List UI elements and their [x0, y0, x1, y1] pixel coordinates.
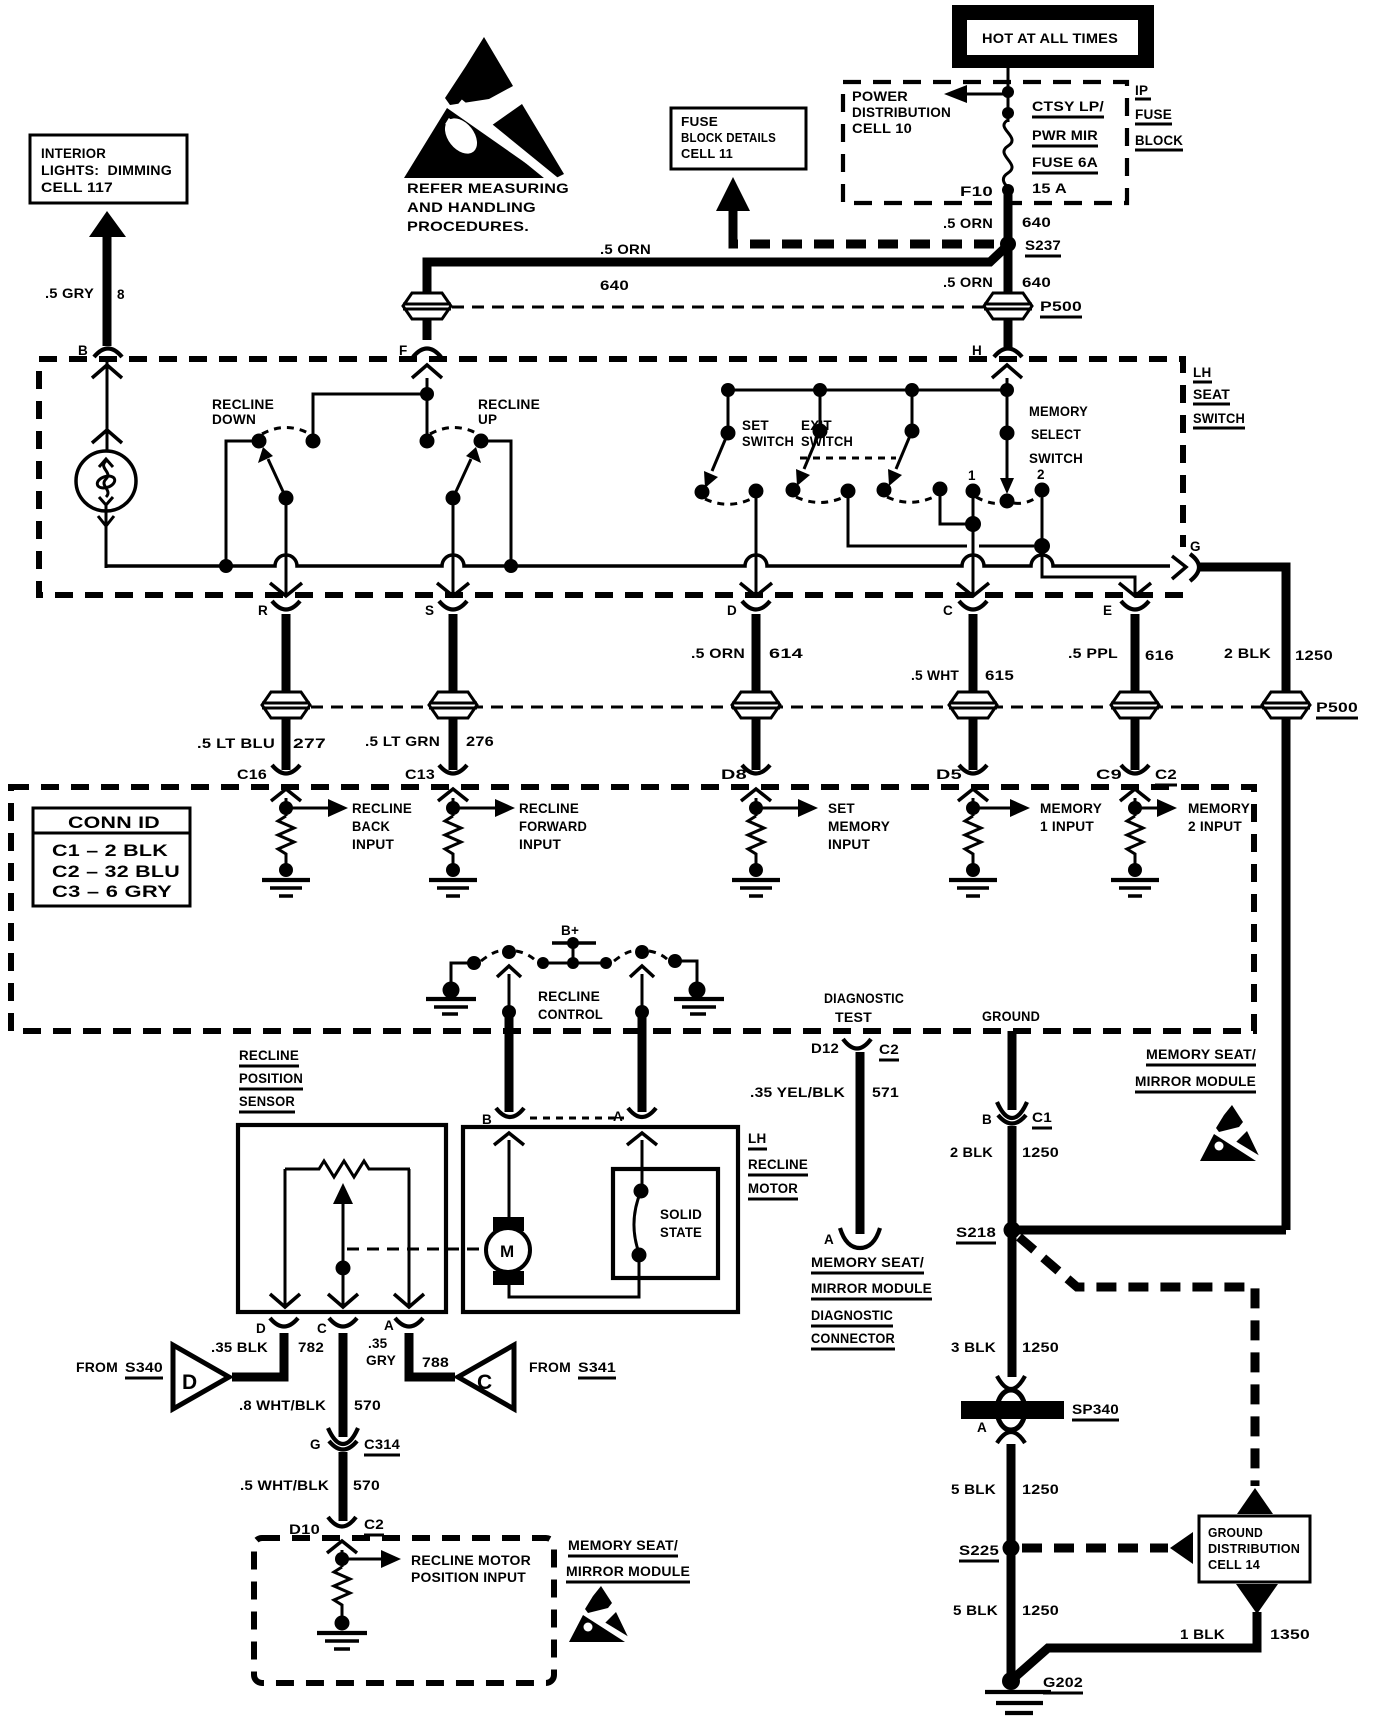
svg-text:DIAGNOSTIC: DIAGNOSTIC — [811, 1308, 893, 1323]
connector B / C1 — [982, 1102, 1052, 1128]
connector C16 — [237, 765, 300, 782]
wire .35 BLK 782 — [211, 1333, 324, 1377]
svg-text:.5 GRY: .5 GRY — [45, 286, 94, 301]
ground distribution cell 14 box — [1199, 1488, 1310, 1614]
LH seat switch dashed box — [39, 359, 1183, 595]
wire F10 to S237 .5 ORN 640 — [943, 194, 1051, 244]
svg-text:A: A — [384, 1318, 394, 1333]
svg-text:S340: S340 — [125, 1360, 163, 1375]
sensor right leg to A — [394, 1169, 424, 1308]
svg-text:GRY: GRY — [366, 1353, 396, 1368]
svg-text:CONTROL: CONTROL — [538, 1007, 603, 1022]
inline connector E at P500 — [1111, 692, 1159, 718]
svg-text:C13: C13 — [405, 767, 435, 782]
splice S237 — [1000, 236, 1061, 256]
svg-text:RECLINE: RECLINE — [519, 801, 579, 816]
wire 5 BLK 1250 upper — [951, 1444, 1059, 1548]
svg-text:INPUT: INPUT — [352, 837, 395, 852]
svg-text:C2 – 32 BLU: C2 – 32 BLU — [52, 862, 180, 881]
wire G to 2 BLK — [1200, 567, 1286, 694]
svg-text:SOLID: SOLID — [660, 1207, 702, 1222]
connector G / C314 — [310, 1428, 400, 1455]
splice S225 — [959, 1540, 1020, 1562]
wire S237 to P500 .5 ORN 640 — [943, 244, 1051, 295]
ground G202 — [985, 1672, 1083, 1713]
ESD symbol module — [1200, 1105, 1261, 1161]
memory 1 input — [949, 789, 1102, 896]
svg-text:FUSE: FUSE — [1135, 107, 1172, 122]
svg-text:POWER: POWER — [852, 89, 908, 104]
svg-text:POSITION: POSITION — [239, 1071, 303, 1086]
svg-text:SWITCH: SWITCH — [742, 434, 794, 449]
svg-text:D12: D12 — [811, 1041, 839, 1056]
wire .5 ORN 614 to D8 — [752, 718, 761, 770]
svg-text:E: E — [1103, 603, 1112, 618]
svg-text:BLOCK: BLOCK — [1135, 133, 1183, 148]
dashed link B to A connectors — [530, 1117, 624, 1120]
svg-text:MEMORY: MEMORY — [828, 819, 890, 834]
exit switch mechanical link — [800, 457, 896, 460]
svg-text:616: 616 — [1145, 648, 1174, 663]
svg-text:DOWN: DOWN — [212, 412, 256, 427]
svg-text:G: G — [310, 1437, 321, 1452]
svg-text:MEMORY SEAT/: MEMORY SEAT/ — [1146, 1047, 1256, 1062]
svg-text:MIRROR MODULE: MIRROR MODULE — [1135, 1074, 1256, 1089]
bus wire with hops — [217, 555, 1170, 566]
svg-text:UP: UP — [478, 412, 497, 427]
svg-text:.5 LT BLU: .5 LT BLU — [197, 736, 275, 751]
svg-text:G202: G202 — [1043, 1675, 1083, 1690]
wire memory 1 to connector C — [957, 491, 989, 596]
recline up switch — [420, 397, 541, 596]
motor M — [486, 1133, 639, 1297]
wire from HOT box + arrow to power distribution — [944, 66, 1014, 122]
svg-text:B: B — [982, 1112, 992, 1127]
svg-text:C: C — [477, 1371, 492, 1394]
junction node right bus — [504, 559, 518, 573]
LH seat switch label — [1193, 365, 1245, 428]
svg-text:S: S — [425, 603, 434, 618]
svg-text:BLOCK DETAILS: BLOCK DETAILS — [681, 131, 776, 145]
svg-text:S225: S225 — [959, 1543, 999, 1558]
svg-text:SET: SET — [742, 418, 769, 433]
solid state box — [613, 1133, 718, 1278]
svg-text:C: C — [317, 1321, 327, 1336]
svg-text:G: G — [1190, 539, 1201, 554]
svg-text:.5 ORN: .5 ORN — [691, 646, 745, 661]
svg-text:CELL 14: CELL 14 — [1208, 1558, 1260, 1572]
recline back input — [262, 789, 412, 896]
recline motor position input — [317, 1541, 531, 1649]
fuse labels — [1032, 99, 1104, 196]
connector D — [727, 601, 770, 618]
recline forward input — [429, 789, 587, 896]
memory select switch — [966, 390, 1089, 509]
svg-text:INPUT: INPUT — [519, 837, 562, 852]
svg-text:1: 1 — [968, 468, 976, 483]
memory seat mirror module label — [1135, 1047, 1256, 1092]
svg-text:640: 640 — [1022, 275, 1051, 290]
inline connector C at P500 — [949, 692, 997, 718]
svg-text:D: D — [182, 1371, 197, 1394]
svg-text:MEMORY SEAT/: MEMORY SEAT/ — [811, 1255, 924, 1270]
svg-text:D10: D10 — [289, 1522, 320, 1537]
svg-text:B: B — [78, 343, 88, 358]
memory seat mirror module 2 label — [566, 1538, 690, 1582]
svg-text:2 INPUT: 2 INPUT — [1188, 819, 1243, 834]
svg-text:640: 640 — [1022, 215, 1051, 230]
dashed wire S218 to ground distribution — [1019, 1237, 1255, 1486]
svg-text:DISTRIBUTION: DISTRIBUTION — [1208, 1542, 1300, 1556]
svg-text:CONN ID: CONN ID — [68, 813, 160, 832]
svg-text:FORWARD: FORWARD — [519, 819, 587, 834]
svg-text:MEMORY: MEMORY — [1188, 801, 1250, 816]
svg-text:P500: P500 — [1040, 299, 1082, 314]
svg-text:AND HANDLING: AND HANDLING — [407, 200, 536, 215]
svg-text:2: 2 — [1037, 467, 1045, 482]
svg-text:570: 570 — [354, 1398, 381, 1413]
svg-text:DISTRIBUTION: DISTRIBUTION — [852, 105, 951, 120]
connector C9 / C2 — [1096, 765, 1177, 785]
svg-text:INPUT: INPUT — [828, 837, 871, 852]
wire S218 to 2 BLK riser — [1012, 1226, 1286, 1235]
svg-text:1350: 1350 — [1270, 1627, 1310, 1642]
IP fuse block label — [1135, 83, 1183, 150]
inline connector at F — [403, 293, 451, 319]
wire E to P500 — [1131, 614, 1140, 694]
svg-text:GROUND: GROUND — [982, 1009, 1040, 1024]
svg-text:REFER MEASURING: REFER MEASURING — [407, 181, 569, 196]
svg-text:.5 WHT: .5 WHT — [911, 668, 960, 683]
wire .5 WHT 615 to D5 — [969, 718, 978, 770]
svg-text:RECLINE: RECLINE — [478, 397, 540, 412]
sensor left leg to D — [270, 1169, 300, 1308]
wire .5 PPL 616 to C9 — [1131, 718, 1140, 770]
svg-text:SWITCH: SWITCH — [801, 434, 853, 449]
interior lights cell box — [30, 135, 187, 203]
connector C — [943, 601, 987, 618]
svg-text:B: B — [482, 1112, 492, 1127]
P500 connector plane dashed — [311, 706, 1262, 709]
svg-text:S341: S341 — [578, 1360, 616, 1375]
wire .35 YEL/BLK 571 — [750, 1052, 899, 1234]
svg-text:A: A — [824, 1232, 834, 1247]
svg-text:.35: .35 — [368, 1336, 388, 1351]
connector A motor — [613, 1108, 656, 1124]
fuse CTSY LP/PWR MIR 6A — [960, 120, 1014, 199]
wire .5 LT GRN 276 to C13 — [449, 718, 458, 770]
svg-text:615: 615 — [985, 668, 1014, 683]
svg-text:.5 ORN: .5 ORN — [943, 275, 993, 290]
junction node left bus — [219, 559, 233, 573]
wire 2 BLK 1250 riser — [1282, 718, 1291, 1230]
off page triangle D from S340 — [76, 1345, 229, 1409]
wire C to P500 — [969, 614, 978, 694]
svg-text:RECLINE: RECLINE — [239, 1048, 299, 1063]
connector plane dashed line F to P500 — [452, 306, 984, 309]
svg-text:SP340: SP340 — [1072, 1402, 1119, 1417]
svg-text:.5 LT GRN: .5 LT GRN — [365, 734, 440, 749]
inline connector P500 — [984, 293, 1082, 319]
svg-text:POSITION INPUT: POSITION INPUT — [411, 1570, 527, 1585]
svg-text:H: H — [972, 343, 982, 358]
wire F node to recline switches — [313, 365, 442, 441]
svg-text:M: M — [500, 1242, 514, 1261]
wire 2 BLK 1250 to S218 — [950, 1126, 1059, 1230]
connector D5 — [936, 765, 987, 782]
svg-text:788: 788 — [422, 1355, 449, 1370]
svg-text:MOTOR: MOTOR — [748, 1181, 798, 1196]
svg-text:.5 WHT/BLK: .5 WHT/BLK — [240, 1478, 329, 1493]
svg-text:SELECT: SELECT — [1031, 427, 1081, 442]
svg-text:2 BLK: 2 BLK — [950, 1145, 993, 1160]
recline control left wiper — [481, 945, 536, 1019]
svg-text:614: 614 — [769, 646, 803, 661]
connector G with arrow — [1172, 539, 1201, 588]
svg-text:SET: SET — [828, 801, 855, 816]
LH recline motor box — [463, 1127, 738, 1312]
ESD warning symbol — [404, 37, 569, 234]
svg-text:277: 277 — [293, 736, 326, 751]
svg-text:.35 YEL/BLK: .35 YEL/BLK — [750, 1085, 845, 1100]
svg-text:MEMORY SEAT/: MEMORY SEAT/ — [568, 1538, 678, 1553]
diagnostic test label — [824, 991, 904, 1025]
sensor resistor — [285, 1161, 410, 1177]
ESD symbol module 2 — [569, 1586, 630, 1642]
svg-text:MIRROR MODULE: MIRROR MODULE — [566, 1564, 690, 1579]
svg-text:8: 8 — [117, 287, 125, 302]
svg-text:S218: S218 — [956, 1225, 996, 1240]
svg-text:CELL 10: CELL 10 — [852, 121, 912, 136]
connector D10 / C2 — [289, 1517, 384, 1537]
svg-text:1 BLK: 1 BLK — [1180, 1627, 1225, 1642]
svg-text:SWITCH: SWITCH — [1193, 411, 1245, 426]
splice S218 — [956, 1222, 1021, 1244]
svg-text:RECLINE MOTOR: RECLINE MOTOR — [411, 1553, 531, 1568]
svg-text:1250: 1250 — [1022, 1145, 1059, 1160]
switch feed rail — [721, 383, 1014, 397]
HOT AT ALL TIMES box — [952, 5, 1154, 68]
inline connector BLK at P500 — [1262, 692, 1358, 718]
connector B motor — [482, 1108, 524, 1127]
set switch — [695, 390, 795, 596]
svg-text:SENSOR: SENSOR — [239, 1094, 295, 1109]
diagnostic connector A — [824, 1228, 880, 1248]
svg-text:RECLINE: RECLINE — [538, 989, 600, 1004]
svg-text:570: 570 — [353, 1478, 380, 1493]
svg-text:F: F — [399, 343, 407, 358]
recline control right ground contact — [668, 954, 724, 1014]
wire memory 2 to connector E — [1034, 490, 1151, 596]
svg-text:.5 PPL: .5 PPL — [1068, 646, 1118, 661]
svg-text:GROUND: GROUND — [1208, 1526, 1263, 1540]
svg-text:CELL 117: CELL 117 — [41, 180, 113, 195]
lamp to bus wire — [106, 564, 217, 568]
svg-text:MEMORY: MEMORY — [1029, 404, 1088, 419]
memory seat mirror module 2 dashed box — [254, 1538, 554, 1683]
svg-text:2 BLK: 2 BLK — [1224, 646, 1271, 661]
recline position sensor label — [239, 1048, 303, 1112]
connector H — [972, 343, 1022, 358]
svg-text:C314: C314 — [364, 1437, 400, 1452]
recline control B+ feed — [537, 923, 612, 969]
svg-text:IP: IP — [1135, 83, 1148, 98]
svg-text:C1 – 2 BLK: C1 – 2 BLK — [52, 841, 169, 860]
svg-text:LIGHTS: DIMMING: LIGHTS: DIMMING — [41, 163, 172, 178]
connector F — [399, 343, 441, 358]
svg-text:CONNECTOR: CONNECTOR — [811, 1331, 895, 1346]
svg-text:571: 571 — [872, 1085, 899, 1100]
svg-text:FUSE 6A: FUSE 6A — [1032, 155, 1098, 170]
wire R to P500 — [282, 614, 291, 694]
svg-text:PWR MIR: PWR MIR — [1032, 128, 1098, 143]
diagnostic connector label — [811, 1255, 932, 1349]
svg-text:3 BLK: 3 BLK — [951, 1340, 996, 1355]
svg-text:B+: B+ — [561, 923, 579, 938]
svg-text:1250: 1250 — [1022, 1482, 1059, 1497]
svg-text:FROM: FROM — [529, 1360, 571, 1375]
svg-text:5 BLK: 5 BLK — [953, 1603, 998, 1618]
svg-text:.8 WHT/BLK: .8 WHT/BLK — [239, 1398, 326, 1413]
exit switch — [786, 390, 1035, 546]
wire .5 GRY 8 arrow to interior lights — [45, 211, 126, 346]
svg-text:PROCEDURES.: PROCEDURES. — [407, 219, 529, 234]
svg-text:C9: C9 — [1096, 767, 1122, 782]
wire recline control to motor B — [505, 1012, 514, 1112]
CONN ID table — [33, 808, 190, 906]
recline control right wiper — [614, 945, 668, 1019]
fuse block details cell box — [671, 108, 806, 169]
svg-text:P500: P500 — [1316, 700, 1358, 715]
memory 2 input — [1111, 789, 1250, 896]
svg-text:1250: 1250 — [1022, 1340, 1059, 1355]
inline connector D at P500 — [732, 692, 780, 718]
off page triangle C from S341 — [458, 1345, 616, 1409]
connector C13 — [405, 765, 467, 782]
svg-text:FROM: FROM — [76, 1360, 118, 1375]
wire labels above P500 — [691, 646, 1333, 683]
svg-text:D: D — [727, 603, 737, 618]
wire .5 ORN 640 from F to S237 — [427, 242, 1008, 340]
svg-text:RECLINE: RECLINE — [352, 801, 412, 816]
connector B (LH seat switch pin B) — [78, 343, 122, 358]
svg-text:D5: D5 — [936, 767, 962, 782]
svg-text:5 BLK: 5 BLK — [951, 1482, 996, 1497]
connector D12 / C2 — [811, 1039, 899, 1060]
svg-text:F10: F10 — [960, 184, 993, 199]
svg-text:CTSY LP/: CTSY LP/ — [1032, 99, 1104, 114]
svg-text:MEMORY: MEMORY — [1040, 801, 1102, 816]
svg-text:640: 640 — [600, 278, 629, 293]
wire 1 BLK 1350 — [1014, 1612, 1310, 1678]
connector A sensor — [384, 1318, 423, 1333]
svg-text:TEST: TEST — [835, 1010, 873, 1025]
wire 3 BLK 1250 — [951, 1230, 1059, 1377]
memory recall switch — [877, 390, 982, 532]
svg-text:C16: C16 — [237, 767, 267, 782]
connector D sensor — [256, 1318, 298, 1336]
svg-text:.5 ORN: .5 ORN — [600, 242, 651, 257]
dashed wire S225 to ground distribution — [1022, 1532, 1193, 1564]
wire .35 GRY 788 — [366, 1333, 455, 1377]
svg-text:MIRROR MODULE: MIRROR MODULE — [811, 1281, 932, 1296]
wire .8 WHT/BLK 570 — [239, 1333, 381, 1437]
sensor wiper — [328, 1183, 358, 1308]
svg-text:.35 BLK: .35 BLK — [211, 1340, 268, 1355]
svg-text:D: D — [256, 1321, 266, 1336]
svg-text:SWITCH: SWITCH — [1029, 451, 1083, 466]
svg-text:1250: 1250 — [1295, 648, 1333, 663]
wire .5 WHT/BLK 570 — [240, 1452, 380, 1521]
svg-text:1 INPUT: 1 INPUT — [1040, 819, 1095, 834]
svg-text:SEAT: SEAT — [1193, 387, 1231, 402]
power distribution cell 10 dashed box — [843, 82, 1127, 203]
svg-text:R: R — [258, 603, 268, 618]
memory seat mirror module dashed box — [11, 787, 1254, 1031]
svg-text:INTERIOR: INTERIOR — [41, 146, 106, 161]
wire labels below P500 — [197, 734, 494, 751]
svg-text:A: A — [977, 1420, 987, 1435]
module ground wire — [1008, 1031, 1017, 1110]
wire H to switch rail — [992, 365, 1022, 390]
svg-text:276: 276 — [466, 734, 494, 749]
splice pack SP340 — [961, 1376, 1119, 1443]
svg-text:C2: C2 — [1155, 767, 1177, 782]
wire S to P500 — [449, 614, 458, 694]
svg-text:FUSE: FUSE — [681, 115, 718, 129]
connector R — [258, 601, 300, 618]
svg-text:CELL 11: CELL 11 — [681, 147, 733, 161]
svg-text:DIAGNOSTIC: DIAGNOSTIC — [824, 991, 904, 1006]
wire recline control to motor A — [638, 1012, 647, 1112]
svg-text:782: 782 — [298, 1340, 324, 1355]
inline connector R at P500 — [262, 692, 310, 718]
svg-text:C2: C2 — [879, 1042, 899, 1057]
recline down switch — [212, 397, 321, 596]
inline connector S at P500 — [429, 692, 477, 718]
svg-text:1250: 1250 — [1022, 1603, 1059, 1618]
wire D to P500 — [752, 614, 761, 694]
svg-text:C1: C1 — [1032, 1110, 1052, 1125]
set memory input — [732, 789, 890, 896]
LH recline motor label — [748, 1131, 808, 1199]
svg-text:HOT AT ALL TIMES: HOT AT ALL TIMES — [982, 31, 1118, 46]
connector D8 — [721, 765, 770, 782]
svg-text:LH: LH — [748, 1131, 766, 1146]
svg-text:BACK: BACK — [352, 819, 390, 834]
svg-text:C3 – 6 GRY: C3 – 6 GRY — [52, 882, 173, 901]
svg-text:STATE: STATE — [660, 1225, 702, 1240]
connector S — [425, 601, 467, 618]
svg-text:.5 ORN: .5 ORN — [943, 216, 993, 231]
wire .5 LT BLU 277 to C16 — [282, 718, 291, 770]
svg-text:RECLINE: RECLINE — [212, 397, 274, 412]
dashed wire to fuse block details with arrow — [716, 177, 999, 244]
illumination lamp — [76, 359, 136, 568]
svg-text:RECLINE: RECLINE — [748, 1157, 808, 1172]
recline control label — [538, 989, 603, 1022]
connector E — [1103, 601, 1149, 618]
svg-text:LH: LH — [1193, 365, 1211, 380]
svg-text:15 A: 15 A — [1032, 181, 1067, 196]
svg-text:C2: C2 — [364, 1517, 384, 1532]
recline position sensor box — [238, 1125, 446, 1312]
svg-text:S237: S237 — [1025, 238, 1061, 253]
wire 5 BLK 1250 lower — [953, 1548, 1059, 1678]
mechanical link sensor to motor — [347, 1248, 485, 1251]
wire P500 to H — [1004, 319, 1013, 350]
svg-text:C: C — [943, 603, 953, 618]
